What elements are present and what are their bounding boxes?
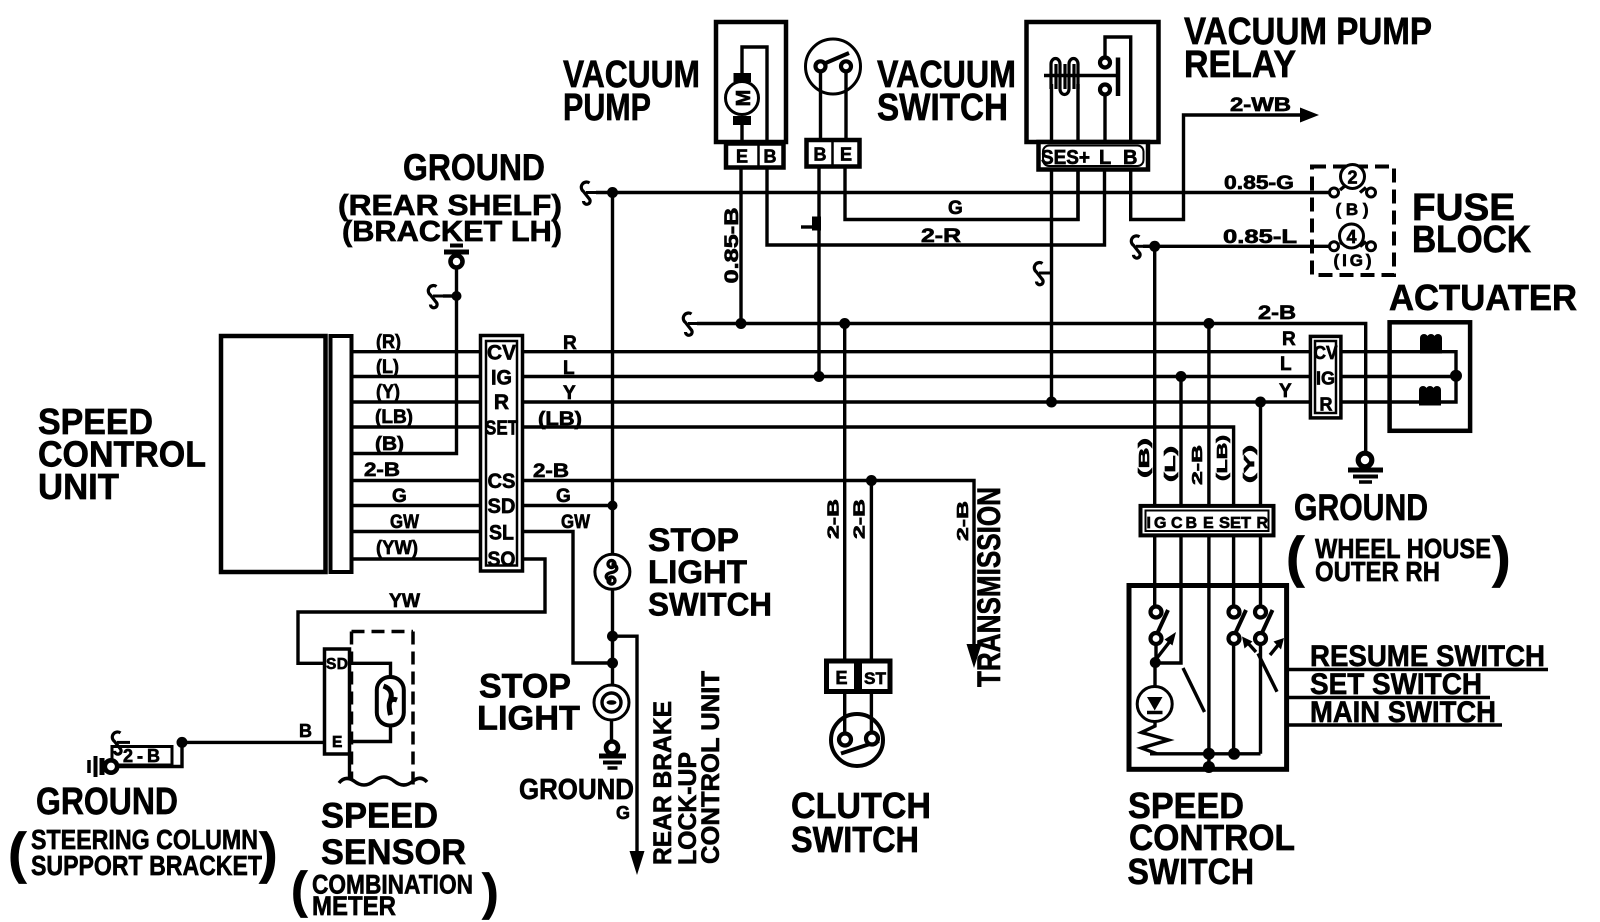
svg-text:2-B: 2-B (852, 499, 869, 539)
svg-text:CS: CS (488, 470, 516, 493)
actuater label (1389, 277, 1577, 318)
clutch switch symbol (831, 692, 883, 767)
wire SCS E down (1207, 324, 1210, 770)
svg-text:G: G (556, 486, 571, 507)
SCS bottom rail (1150, 752, 1261, 755)
svg-text:): ) (259, 821, 278, 884)
svg-text:LIGHT: LIGHT (477, 700, 580, 738)
clutch switch label (791, 785, 931, 860)
label (YW) (376, 538, 418, 559)
svg-text:E: E (840, 145, 852, 165)
speed sensor reed switch (350, 663, 404, 741)
svg-text:(BRACKET LH): (BRACKET LH) (342, 216, 562, 248)
wire vacuum pump E down (739, 168, 742, 324)
svg-text:R: R (1320, 395, 1333, 415)
svg-text:GROUND: GROUND (1294, 487, 1428, 528)
label (L) vertical (1162, 446, 1179, 482)
vacuum switch connector B E (807, 140, 860, 167)
label (B) vertical (1136, 438, 1153, 478)
svg-text:L: L (1280, 354, 1292, 375)
svg-text:(R): (R) (376, 332, 401, 353)
svg-text:): ) (482, 864, 499, 920)
actuator coil 2 (1419, 386, 1441, 406)
wire 0.85-L from junction to fuse (1155, 245, 1330, 248)
svg-text:Y: Y (563, 383, 576, 404)
label R after connector (563, 333, 577, 354)
junction dot actuator common (1450, 370, 1462, 382)
main horizontal wire to fuse 0.85-G (613, 191, 1331, 194)
svg-text:4: 4 (1346, 227, 1356, 247)
actuator coil 1 (1420, 334, 1442, 354)
rear brake arrowhead (630, 851, 645, 875)
svg-text:GW: GW (390, 512, 419, 533)
junction dot Y row SCS R (1255, 397, 1266, 408)
vacuum pump box (716, 22, 786, 142)
svg-text:2-B: 2-B (1258, 303, 1296, 324)
label Y after connector (563, 383, 576, 404)
svg-text:IG: IG (1316, 369, 1335, 389)
wire stop light switch down (611, 589, 614, 685)
speed control unit box (221, 336, 352, 572)
label (R) (376, 332, 401, 353)
label (L) (376, 357, 399, 378)
svg-text:SWITCH: SWITCH (877, 87, 1008, 129)
SCS main switch arrow (1157, 632, 1176, 658)
label G (948, 198, 963, 219)
vacuum pump relay label (1184, 11, 1432, 86)
svg-text:CV: CV (1314, 343, 1338, 363)
svg-text:PUMP: PUMP (563, 87, 651, 129)
svg-text:SD: SD (488, 495, 516, 518)
svg-text:2-B: 2-B (364, 460, 400, 481)
label (LB) after connector (538, 409, 582, 430)
svg-text:GROUND: GROUND (36, 781, 178, 823)
set switch label (1288, 668, 1490, 701)
vacuum pump label (563, 54, 700, 129)
junction dot rear brake branch (607, 631, 618, 642)
wire vacuum pump B to 2-R (767, 168, 1105, 246)
speed sensor pin box (325, 649, 350, 754)
label 2-B clutch E vertical (826, 499, 843, 539)
SCS indicator diode (1137, 663, 1172, 722)
vertical wire 612 down to stop light switch (611, 193, 614, 555)
SCS resume switch (1255, 607, 1273, 754)
svg-text:SL: SL (489, 522, 514, 545)
svg-text:Y: Y (1279, 381, 1292, 402)
junction dot 2-B SCS E (1203, 318, 1214, 329)
junction dot 2-B clutch (839, 318, 850, 329)
SCS linkage diagonal (1183, 668, 1205, 712)
ground symbol stop light (599, 742, 626, 769)
clutch connector E (827, 661, 857, 692)
svg-text:SD: SD (326, 656, 348, 673)
ground symbol rear shelf (444, 246, 469, 268)
svg-text:SWITCH: SWITCH (1128, 851, 1255, 892)
speed control switch box (1129, 586, 1287, 770)
svg-text:(L): (L) (376, 357, 399, 378)
ground rear shelf label (338, 147, 562, 248)
main switch label (1288, 696, 1502, 729)
scu connector pin labels (485, 342, 518, 572)
wire stop light to ground (610, 720, 613, 742)
label 2-B clutch ST vertical (852, 499, 869, 539)
svg-text:SENSOR: SENSOR (321, 833, 466, 872)
ground wheel house label (1286, 487, 1511, 588)
junction dot G row (608, 501, 618, 511)
svg-text:TRANSMISSION: TRANSMISSION (971, 487, 1007, 687)
svg-text:E: E (835, 668, 847, 688)
wire SO YW row (298, 559, 545, 663)
label 2-B boxed (112, 746, 172, 766)
wire Y row (351, 400, 1420, 403)
vacuum pump connector E B (726, 144, 784, 168)
svg-text:YW: YW (389, 591, 420, 612)
label 2-B after connector (533, 461, 569, 482)
svg-text:2-B: 2-B (955, 501, 972, 541)
svg-text:B: B (764, 147, 777, 167)
transmission label vertical (971, 487, 1007, 687)
svg-text:GW: GW (561, 512, 590, 533)
svg-text:IG: IG (1147, 515, 1167, 532)
connector hook 2-B (683, 313, 701, 335)
label 2-B actuator (1258, 303, 1296, 324)
junction dot 2-B vacuum pump E (736, 318, 747, 329)
svg-text:SPEED: SPEED (321, 797, 438, 836)
clutch connector ST (860, 661, 891, 692)
junction dot CS clutch (866, 475, 877, 486)
label G rear brake (616, 803, 630, 823)
svg-text:METER: METER (312, 891, 396, 921)
svg-text:(: ( (8, 821, 27, 884)
svg-text:B: B (1123, 147, 1137, 169)
svg-text:2-B: 2-B (826, 499, 843, 539)
vacuum pump relay box (1027, 22, 1159, 142)
svg-text:(B): (B) (375, 434, 404, 455)
junction dot rail E (1203, 748, 1215, 760)
svg-text:L: L (563, 358, 575, 379)
svg-text:LIGHT: LIGHT (648, 554, 747, 590)
svg-text:REAR BRAKE: REAR BRAKE (649, 701, 677, 865)
label 2-WB (1230, 95, 1291, 116)
relay contacts (1100, 37, 1131, 142)
svg-text:(Y): (Y) (376, 382, 400, 403)
svg-text:2: 2 (1347, 168, 1357, 188)
stop light switch symbol (595, 554, 630, 589)
svg-text:2-B: 2-B (1189, 445, 1206, 485)
svg-text:SES+: SES+ (1041, 147, 1090, 169)
actuator connector (1310, 336, 1341, 418)
wire SCS CB down (1155, 377, 1181, 664)
svg-text:(: ( (1286, 525, 1305, 588)
svg-text:R: R (1282, 329, 1296, 350)
svg-text:2-R: 2-R (921, 226, 961, 247)
svg-text:G: G (948, 198, 963, 219)
junction dot main wire (607, 187, 618, 198)
junction dot Y row relay S (1046, 397, 1057, 408)
label Y actuator (1279, 381, 1292, 402)
svg-text:STOP: STOP (648, 522, 739, 558)
speed sensor lower stem (348, 754, 351, 780)
svg-text:SWITCH: SWITCH (648, 587, 772, 623)
svg-text:(YW): (YW) (376, 538, 418, 559)
junction dot rail SET (1228, 748, 1240, 760)
speed sensor dashed box (352, 632, 414, 787)
svg-text:): ) (1492, 525, 1511, 588)
speed control switch label (1128, 785, 1296, 892)
svg-text:2-B: 2-B (533, 461, 569, 482)
svg-text:2-WB: 2-WB (1230, 95, 1291, 116)
resume switch label (1288, 640, 1548, 673)
svg-text:RELAY: RELAY (1184, 44, 1296, 86)
label (B) (375, 434, 404, 455)
wire CS 2-B row to transmission (351, 481, 974, 651)
svg-text:IG: IG (491, 367, 512, 390)
label L actuator (1280, 354, 1292, 375)
label G (392, 486, 407, 507)
actuator coil 1 wire (1442, 352, 1456, 376)
SCS linkage diagonal right (1258, 654, 1277, 692)
stop light bulb (594, 685, 629, 720)
actuator box (1390, 322, 1471, 431)
connector hook on ground wire (428, 286, 456, 308)
junction dot L row vacuum switch (814, 371, 825, 382)
ground stop light label (519, 774, 634, 806)
label YW (389, 591, 420, 612)
speed sensor wavy bottom (339, 777, 427, 785)
scu connector block (481, 336, 523, 572)
svg-text:(LB): (LB) (375, 407, 413, 428)
SCS resistor (1142, 722, 1169, 754)
svg-text:B: B (299, 721, 312, 741)
label R actuator (1282, 329, 1296, 350)
svg-text:BLOCK: BLOCK (1412, 219, 1531, 261)
wire L row (351, 375, 1456, 378)
svg-text:E: E (332, 734, 342, 751)
svg-text:(B): (B) (1336, 200, 1369, 219)
svg-text:SO: SO (488, 548, 516, 571)
svg-text:OUTER RH: OUTER RH (1315, 556, 1440, 587)
connector hook 0.85-L (1131, 236, 1154, 258)
svg-text:CONTROL UNIT: CONTROL UNIT (697, 671, 725, 864)
label 2-B (364, 460, 400, 481)
wire vacuum switch B down to L row (817, 167, 820, 377)
svg-text:L: L (1099, 147, 1111, 169)
label 0.85-B vertical (722, 208, 743, 284)
fuse terminal 4 (1330, 224, 1376, 270)
relay leg S down to Y row (1050, 170, 1053, 403)
relay connector SES+ L B (1039, 142, 1149, 170)
2-WB arrowhead (1300, 108, 1319, 123)
label GW (390, 512, 419, 533)
svg-text:R: R (494, 391, 509, 414)
wire B row to ground (351, 268, 457, 454)
label 0.85-L (1223, 227, 1298, 248)
rear brake lock-up control unit label (649, 671, 725, 865)
svg-text:SUPPORT BRACKET: SUPPORT BRACKET (31, 850, 262, 881)
svg-text:E: E (1203, 515, 1214, 532)
svg-text:SET: SET (1219, 515, 1251, 532)
svg-text:SWITCH: SWITCH (791, 819, 919, 860)
svg-text:(: ( (291, 862, 308, 918)
junction dot main switch (1150, 657, 1161, 668)
ground steering column label (8, 781, 278, 884)
SCS resume switch arrow (1270, 638, 1284, 655)
vacuum switch label (877, 54, 1016, 129)
stop light label (477, 668, 580, 738)
svg-text:ST: ST (864, 669, 887, 688)
svg-text:E: E (736, 147, 748, 167)
speed sensor label (291, 797, 499, 922)
svg-text:(L): (L) (1162, 446, 1179, 482)
svg-text:R: R (563, 333, 577, 354)
wire R row (351, 350, 1420, 353)
label 2-R (921, 226, 961, 247)
svg-text:G: G (616, 803, 630, 823)
wire vacuum switch E to relay G (845, 167, 1078, 220)
ground symbol wheel house (1348, 453, 1383, 482)
label 2-B vertical (1189, 445, 1206, 485)
wire 2-B main horizontal (697, 324, 1366, 455)
svg-text:GROUND: GROUND (519, 774, 634, 806)
SCS set switch arrow (1242, 637, 1256, 653)
svg-text:0.85-G: 0.85-G (1224, 173, 1294, 194)
junction dot steering ground (177, 737, 188, 748)
wire ground to speed sensor B (117, 742, 324, 766)
svg-text:0.85-L: 0.85-L (1223, 227, 1298, 248)
relay leg B to 2-WB arrow (1131, 115, 1302, 220)
svg-text:G: G (392, 486, 407, 507)
label B speed sensor (299, 721, 312, 741)
vacuum pump motor (726, 47, 768, 143)
junction dot 0.85-L (1149, 241, 1160, 252)
junction dot ground wire (452, 291, 462, 301)
SCS main switch (1151, 607, 1169, 664)
label GW after connector (561, 512, 590, 533)
relay coil (1044, 59, 1116, 143)
svg-text:M: M (733, 90, 755, 107)
label (Y) (376, 382, 400, 403)
junction dot E case (1203, 761, 1215, 773)
wire SCS IG down (1153, 246, 1156, 606)
fuse terminal 2 (1330, 165, 1376, 220)
fuse block dashed box (1312, 167, 1394, 276)
svg-text:(LB): (LB) (538, 409, 582, 430)
svg-text:UNIT: UNIT (38, 466, 119, 507)
SCS connector block (1141, 506, 1274, 536)
junction dot L row CB (1176, 371, 1187, 382)
ground steering column symbol (89, 756, 117, 777)
clutch switch wire E (843, 324, 846, 662)
connector hook on relay S leg (1034, 263, 1052, 285)
stub connector on B wire (801, 217, 821, 231)
wire SET row (351, 427, 1234, 607)
relay leg E (1076, 170, 1079, 222)
wire SCS R down (1259, 402, 1262, 607)
label G after connector (556, 486, 571, 507)
svg-text:2-B: 2-B (123, 746, 160, 766)
junction dot GW stop light (607, 658, 618, 669)
wire SL GW row (351, 532, 613, 664)
svg-text:GROUND: GROUND (403, 147, 545, 188)
svg-text:R: R (1257, 515, 1269, 532)
connector hook 2-B steering (112, 732, 130, 754)
SCS set switch (1229, 607, 1247, 754)
svg-text:SET: SET (485, 418, 518, 440)
svg-text:B: B (814, 145, 827, 165)
transmission arrowhead (967, 644, 982, 668)
stop light switch label (648, 522, 772, 623)
svg-text:0.85-B: 0.85-B (722, 208, 743, 284)
svg-text:(LB): (LB) (1214, 435, 1231, 481)
svg-text:ACTUATER: ACTUATER (1389, 277, 1577, 318)
label L after connector (563, 358, 575, 379)
clutch switch wire ST (870, 481, 873, 662)
svg-text:(Y): (Y) (1241, 445, 1258, 483)
label 0.85-G (1224, 173, 1294, 194)
label 2-B transmission vertical (955, 501, 972, 541)
svg-text:(B): (B) (1136, 438, 1153, 478)
label (LB) vertical (1214, 435, 1231, 481)
connector hook main wire (581, 182, 612, 204)
fuse block label (1412, 187, 1531, 261)
vacuum switch symbol (806, 39, 861, 140)
wire SD G row (351, 504, 613, 507)
label (Y) vertical (1241, 445, 1258, 483)
wire to rear brake lock-up control unit (613, 636, 638, 853)
svg-text:CV: CV (487, 342, 516, 365)
actuator coil 2 wire (1441, 375, 1456, 402)
speed control unit label (38, 401, 206, 507)
label (LB) (375, 407, 413, 428)
